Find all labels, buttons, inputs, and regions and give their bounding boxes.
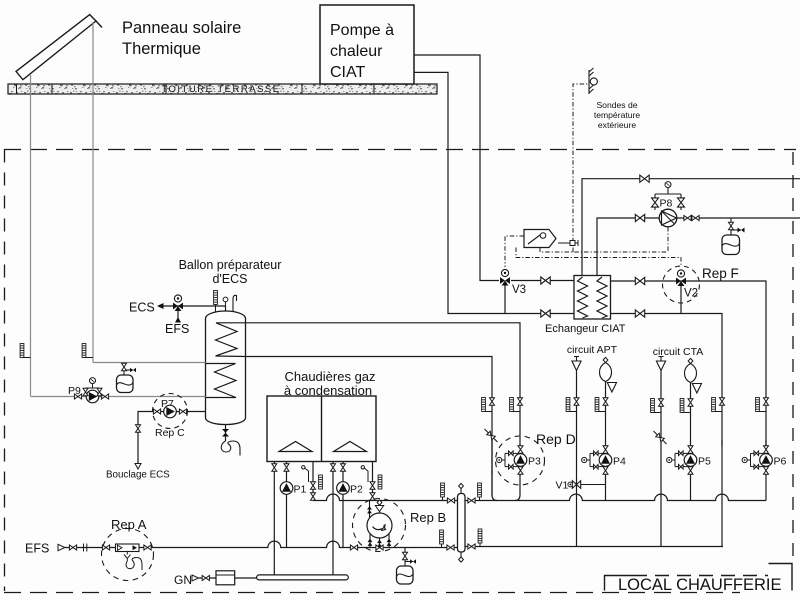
valve on exchanger lower left line <box>541 310 550 317</box>
svg-text:P3: P3 <box>528 456 541 468</box>
APT return riser <box>576 357 578 362</box>
wire coil top to P3 riser <box>246 323 521 446</box>
CTA return riser <box>660 357 662 362</box>
EFS feed arrow <box>177 311 179 320</box>
wire exchanger lower right <box>611 314 723 447</box>
P9 bypass bracket <box>86 385 100 397</box>
gauge on P8 bypass <box>665 182 671 191</box>
tank safety discharge curl <box>233 295 237 311</box>
svg-text:Panneau solaire: Panneau solaire <box>122 19 241 37</box>
burner triangle boiler 2 <box>334 442 367 452</box>
right wall dashed <box>792 152 794 563</box>
oblique drain on P3 return <box>485 429 498 442</box>
svg-text:P8: P8 <box>660 198 673 210</box>
svg-text:Rep C: Rep C <box>155 427 185 439</box>
control line P8 <box>667 227 669 252</box>
boiler 1 supply pipe <box>312 462 314 501</box>
P6 riser fittings <box>764 398 769 405</box>
valve on exchanger upper left line <box>541 277 550 284</box>
3-way valve V3 <box>500 269 510 285</box>
ceiling dashed line <box>4 149 796 151</box>
boiler supply header to separator <box>313 494 458 501</box>
heat pump circuit return riser fittings <box>720 398 725 405</box>
svg-text:Rep D: Rep D <box>536 431 576 447</box>
outdoor temperature sensor wall anchor <box>589 68 597 94</box>
Rep D dashed circle <box>496 436 545 485</box>
valve right of exchanger lower <box>635 310 644 317</box>
svg-text:ECS: ECS <box>129 301 155 315</box>
solar supply pipe to tank <box>93 362 206 364</box>
thermometer pocket on right support <box>82 344 86 358</box>
bypass valve right <box>678 198 685 207</box>
valve right of exchanger upper <box>635 277 644 284</box>
wire coil bottom to return riser <box>246 357 493 497</box>
wire PAC return <box>414 72 574 313</box>
P3 supply riser to collector <box>515 471 520 501</box>
exchanger CIAT body <box>574 276 611 320</box>
svg-text:V3: V3 <box>512 284 526 296</box>
svg-text:d'ECS: d'ECS <box>212 272 247 286</box>
drain vessel under line <box>404 548 406 567</box>
tank drain pigtail <box>221 441 240 456</box>
pump module P5 <box>667 446 697 474</box>
supply collector <box>465 494 766 500</box>
wire tank to ECS <box>160 305 226 307</box>
tank lower coil <box>206 364 237 398</box>
Rep B dashed circle <box>353 499 406 552</box>
solar expansion vessel connection <box>124 363 133 376</box>
EFS main line <box>65 541 459 547</box>
svg-text:circuit APT: circuit APT <box>567 344 618 356</box>
panel support right (gray) <box>92 22 94 363</box>
svg-text:Ballon préparateur: Ballon préparateur <box>179 258 282 272</box>
valve on top right line <box>640 175 649 182</box>
wire exchanger upper right to P6 riser <box>611 281 767 446</box>
svg-text:Pompe à: Pompe à <box>330 22 394 39</box>
thermometer flag boiler 2 <box>361 466 368 482</box>
small valve on riser <box>136 425 141 432</box>
panel support left (gray) <box>30 75 32 396</box>
svg-text:V2: V2 <box>684 288 698 300</box>
Rep A dashed circle <box>102 529 154 581</box>
arrow end bouclage <box>135 464 141 470</box>
svg-text:chaleur: chaleur <box>330 43 383 60</box>
svg-text:P6: P6 <box>774 456 787 468</box>
thermometer pocket on left support <box>20 344 24 358</box>
expansion vessel <box>722 235 740 255</box>
comb before separator bottom <box>440 530 444 544</box>
svg-text:Rep F: Rep F <box>702 266 739 281</box>
wire PAC supply to V3 <box>414 55 499 281</box>
bottom stubs with checks <box>369 534 371 548</box>
wire V3 to exchanger upper left <box>511 280 574 282</box>
svg-text:P2: P2 <box>350 484 363 496</box>
pump P8 <box>659 209 677 227</box>
thermometer flag boiler 1 <box>302 466 309 482</box>
gas riser boiler 1 <box>273 462 275 576</box>
svg-text:Chaudières gaz: Chaudières gaz <box>284 369 375 384</box>
oblique drain on CTA return <box>654 431 667 444</box>
expansion vessel connection <box>731 218 741 235</box>
exchanger coil left <box>578 277 588 318</box>
control bus lower <box>516 248 681 267</box>
pump module P3 <box>497 446 527 474</box>
Rep F dashed circle <box>663 266 700 303</box>
3-way valve V2 <box>676 270 686 286</box>
small drain valve <box>738 228 745 233</box>
tank bottom drain valve <box>225 425 227 442</box>
svg-text:TOITURE TERRASSE: TOITURE TERRASSE <box>161 84 280 95</box>
tundish drain <box>124 552 131 562</box>
pump module P6 <box>742 446 772 474</box>
bottom wall dashed <box>4 592 740 594</box>
gas riser boiler 2 <box>332 462 334 576</box>
tank thermometer pocket <box>214 291 218 305</box>
controller output connector <box>558 240 578 246</box>
sensor control line (dashed) <box>573 84 589 252</box>
wire exchanger riser right to P8 line <box>597 218 800 276</box>
APT supply riser <box>603 357 608 362</box>
svg-text:extérieure: extérieure <box>598 120 636 130</box>
boiler block <box>267 396 376 462</box>
controller box <box>524 230 556 248</box>
boiler 2 return pipe with pump P2 <box>342 462 344 548</box>
svg-text:EFS: EFS <box>165 322 189 336</box>
EFS entry arrow <box>58 544 65 550</box>
tank air vent <box>225 302 227 311</box>
backflow preventer <box>116 544 140 552</box>
P8 bypass bracket <box>655 189 681 210</box>
solar return pipe P9 line <box>31 396 206 398</box>
bouclage pipe <box>138 412 206 468</box>
solar panel collector <box>16 15 102 80</box>
svg-text:CIAT: CIAT <box>330 64 365 81</box>
svg-text:Bouclage ECS: Bouclage ECS <box>106 470 170 481</box>
control line to V3 <box>505 236 524 267</box>
svg-text:Rep B: Rep B <box>410 510 446 525</box>
svg-text:Rep A: Rep A <box>111 517 147 532</box>
valve left of P8 <box>635 214 644 221</box>
svg-text:EFS: EFS <box>25 542 49 556</box>
arrow to ECS <box>157 303 164 309</box>
boiler 2 supply pipe <box>372 462 374 501</box>
Rep B pump <box>367 513 392 538</box>
gas manifold bar <box>257 575 349 580</box>
Rep C dashed circle <box>153 394 188 429</box>
svg-text:P5: P5 <box>698 456 711 468</box>
roof slab TOITURE TERRASSE <box>8 84 437 95</box>
svg-text:GN: GN <box>174 573 192 587</box>
return collector <box>465 546 723 548</box>
heat pump CIAT box <box>320 5 414 84</box>
boiler 1 return pipe with pump P1 <box>286 462 288 548</box>
solar expansion vessel <box>117 375 134 393</box>
svg-text:Sondes de: Sondes de <box>596 100 637 110</box>
svg-text:Echangeur CIAT: Echangeur CIAT <box>545 323 626 335</box>
svg-text:LOCAL CHAUFFERIE: LOCAL CHAUFFERIE <box>618 576 782 594</box>
bypass valve left <box>652 198 659 207</box>
svg-text:V1: V1 <box>556 480 569 492</box>
pump module P4 <box>582 446 612 474</box>
top stub with funnel vent <box>379 501 381 514</box>
union <box>84 544 87 552</box>
svg-text:P1: P1 <box>294 484 307 496</box>
double check valve right of P8 <box>684 216 691 221</box>
control bus upper <box>540 248 668 253</box>
top stub with check <box>369 501 371 518</box>
tank upper coil <box>216 323 246 357</box>
comb on header <box>441 483 445 497</box>
exchanger coil right <box>597 277 607 318</box>
burner triangle boiler 1 <box>279 442 312 452</box>
left wall dashed <box>4 150 6 592</box>
svg-text:Thermique: Thermique <box>122 40 201 58</box>
wire exchanger riser left to top line <box>582 179 800 276</box>
svg-text:température: température <box>594 110 641 120</box>
gas meter <box>216 571 235 585</box>
svg-text:P4: P4 <box>613 456 626 468</box>
CTA supply riser <box>688 358 693 363</box>
P3 return riser lower part <box>492 471 497 501</box>
tank body <box>206 311 246 425</box>
line valves at Rep B <box>350 545 357 550</box>
thermostatic mixing valve <box>173 295 183 311</box>
